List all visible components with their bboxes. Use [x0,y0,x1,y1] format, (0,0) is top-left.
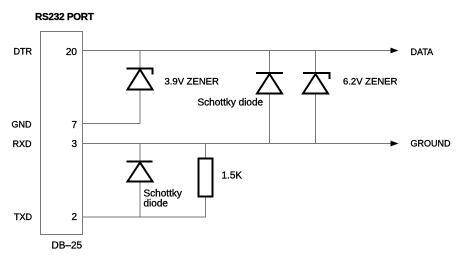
svg-text:3.9V ZENER: 3.9V ZENER [165,77,220,88]
wire GROUND line from pin 3 [83,143,392,145]
svg-text:GROUND: GROUND [411,139,451,149]
zener diode D4 triangle [303,74,328,94]
schottky diode D3 cathode bar [256,72,283,74]
wire vertical for schottky D2 [139,144,141,218]
svg-text:TXD: TXD [14,212,33,222]
zener diode D4 6.2V: cathode bar with bend [303,73,330,79]
wire GND stub from pin 7 [83,123,141,125]
svg-text:diode: diode [144,199,169,210]
schottky diode D3 triangle [257,74,282,94]
wire vertical for schottky D3 [269,51,271,144]
wire vertical for zener D1 [139,51,141,124]
svg-text:DB–25: DB–25 [52,241,83,252]
svg-text:3: 3 [71,139,77,150]
svg-text:20: 20 [66,47,78,58]
zener diode D1 triangle [128,70,153,90]
resistor R1 1.5K body [199,159,213,197]
wire vertical for resistor R1 [205,144,207,218]
svg-text:6.2V ZENER: 6.2V ZENER [343,77,398,88]
svg-text:Schottky diode: Schottky diode [198,98,264,109]
schottky diode D2 triangle [128,163,153,182]
svg-text:1.5K: 1.5K [222,171,243,182]
svg-text:DATA: DATA [411,47,434,57]
RS232 port connector box U1 [41,32,83,235]
svg-text:RXD: RXD [13,139,33,149]
svg-text:7: 7 [71,120,77,131]
schottky diode D2 cathode bar [127,161,153,163]
wire vertical for zener D4 [315,51,317,144]
svg-text:RS232 PORT: RS232 PORT [35,12,94,23]
wire DATA line from pin 20 [83,50,392,52]
svg-text:GND: GND [12,120,33,130]
svg-text:DTR: DTR [14,47,33,57]
wire TXD line from pin 2 [83,216,207,218]
arrowhead GROUND [391,141,399,147]
svg-text:2: 2 [71,212,77,223]
arrowhead DATA [391,48,399,54]
zener diode D1 3.9V: cathode bar with bend [127,69,153,75]
